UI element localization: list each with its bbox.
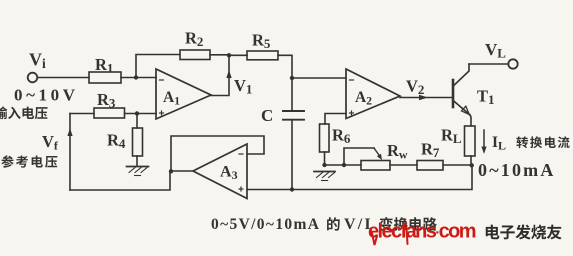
- wire R7 to RL bottom node: [443, 164, 472, 166]
- capacitor C top lead: [291, 78, 293, 111]
- resistor R2: [180, 50, 210, 60]
- T1 collector: [454, 64, 469, 86]
- wire R1 to A1 inverting input: [121, 77, 156, 79]
- resistor R7: [417, 161, 443, 171]
- wire V1 node to R5: [229, 54, 247, 56]
- wire A3 feedback loop to inverting input: [171, 136, 264, 171]
- output terminal VL: [508, 59, 517, 68]
- label 转换电流: [516, 136, 528, 148]
- current arrow IL: [483, 130, 485, 150]
- arrowhead Vf up: [67, 128, 72, 136]
- R4 ground lead: [136, 156, 138, 166]
- wire node up to R2: [136, 55, 180, 78]
- A1 noninverting mark: [160, 112, 164, 114]
- wire R2 to node V1: [210, 54, 229, 56]
- svg-text:0~10V: 0~10V: [14, 86, 79, 105]
- wire node down to R4: [136, 114, 138, 129]
- A3 inverting mark: [239, 153, 243, 155]
- junction node R6 bottom: [322, 163, 326, 167]
- caption 的: [327, 217, 340, 231]
- bottom rail R6 to Rw: [325, 164, 362, 166]
- caption 变换电路: [380, 217, 393, 231]
- wire A3 noninverting input bottom rail: [247, 166, 472, 190]
- A2 inverting mark: [350, 79, 354, 81]
- resistor R1: [89, 72, 121, 83]
- wire A2 noninverting input to R6: [325, 114, 346, 125]
- label 输入电压: [0, 106, 7, 119]
- wire Vi to R1: [37, 77, 89, 79]
- ground under R6: [314, 171, 335, 173]
- wire R3 to A1 noninverting input: [125, 113, 157, 115]
- potentiometer Rw body: [361, 161, 390, 171]
- RL bottom lead: [470, 156, 472, 165]
- node A3 output junction: [169, 169, 173, 173]
- resistor R6: [320, 124, 330, 152]
- wire A2 output to T1 base with arrow: [400, 97, 453, 99]
- junction node R5/C/A2: [290, 76, 294, 80]
- svg-text:C: C: [261, 106, 273, 125]
- junction node wiper tap: [342, 163, 346, 167]
- op-amp A1: [156, 69, 211, 119]
- wire A3 output: [171, 170, 193, 172]
- input terminal Vi: [28, 73, 38, 83]
- watermark 电子发烧友: [486, 225, 500, 240]
- resistor R3: [94, 108, 125, 118]
- wire A1 output to V1 node with up arrow: [211, 55, 229, 95]
- T1 emitter with arrow: [454, 101, 470, 115]
- watermark red check mark: [372, 233, 377, 245]
- watermark red stroke 2: [407, 228, 408, 244]
- wire Rw to R7: [390, 164, 417, 166]
- wiper connection of Rw: [344, 148, 374, 165]
- arrowhead V2: [419, 95, 428, 100]
- R6 bottom lead: [324, 152, 326, 165]
- junction node C bottom: [290, 187, 294, 191]
- wire collector to VL terminal: [469, 63, 508, 65]
- A1 inverting mark: [160, 79, 164, 81]
- svg-text:0~5V/0~10mA: 0~5V/0~10mA: [211, 216, 320, 233]
- wire node to A2 inverting input: [292, 77, 346, 79]
- wire Vf corner to R3: [70, 113, 94, 115]
- resistor R5: [247, 51, 278, 60]
- wiper arrow: [374, 148, 381, 157]
- wire Vf vertical with up arrow: [69, 114, 71, 191]
- junction node RL/R7: [470, 163, 474, 167]
- resistor R4: [133, 128, 143, 156]
- wire emitter to RL: [470, 115, 471, 126]
- capacitor C bottom lead: [291, 120, 293, 190]
- A3 noninverting mark: [239, 188, 243, 190]
- wire R5 to A2 input node: [278, 55, 292, 78]
- junction node R1/R2/A1: [134, 75, 138, 79]
- capacitor C plates: [283, 110, 304, 112]
- node V1 junction: [227, 53, 231, 57]
- ground under R4: [127, 166, 149, 168]
- op-amp A2: [346, 69, 400, 119]
- arrowhead V1 up: [226, 70, 231, 78]
- junction node R3/R4/A1: [135, 111, 139, 115]
- svg-text:0~10mA: 0~10mA: [478, 160, 556, 180]
- wire bottom left rail to A3 output: [70, 172, 170, 191]
- label 参考电压: [1, 155, 13, 167]
- A2 noninverting mark: [350, 112, 354, 114]
- svg-text:elecfans·com: elecfans·com: [368, 221, 476, 243]
- op-amp A3 (points left): [193, 144, 247, 199]
- resistor RL: [465, 126, 476, 156]
- transistor T1 base bar: [452, 80, 455, 107]
